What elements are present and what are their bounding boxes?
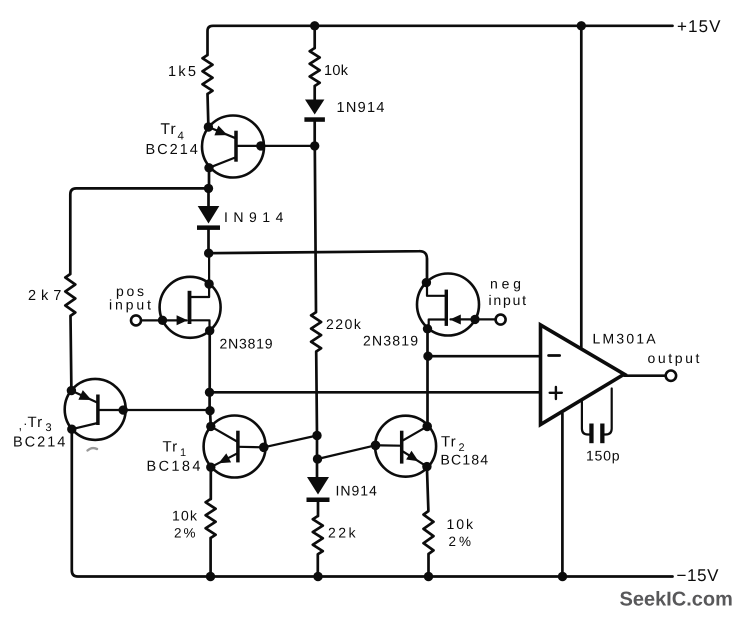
Tr4 emitter arrow (PNP) — [214, 126, 227, 136]
Tr4 base wire to center column — [238, 145, 315, 147]
wire left column to Tr3 base node — [208, 392, 211, 410]
output terminal — [666, 371, 676, 381]
Tr2 collector node — [422, 422, 432, 432]
Tr4 emitter node — [204, 122, 213, 131]
resistor R5 10k 2% — [206, 499, 216, 538]
comp wire right — [605, 389, 612, 435]
pos gate wire — [141, 319, 187, 321]
Tr2 emitter arrow (NPN) — [406, 451, 418, 462]
pos input terminal — [131, 315, 141, 325]
resistor R1 1k5 — [203, 55, 213, 94]
junction collector/2k7 branch — [204, 184, 213, 193]
wire to op-amp minus input — [428, 355, 541, 358]
rail node right — [424, 572, 433, 581]
diode D1 1N914 — [305, 100, 324, 115]
neg input terminal — [496, 315, 506, 325]
junction top rail / 10k — [310, 21, 319, 30]
wire D2 to drain node — [207, 230, 210, 254]
comp wire left — [582, 402, 589, 435]
Tr2 emitter line — [403, 451, 427, 466]
Tr3 collector node — [67, 425, 76, 434]
value 10k 2% left — [173, 510, 197, 520]
pos source edge node — [205, 326, 214, 335]
Tr3 emitter line — [71, 391, 96, 403]
wire 10k to rail — [427, 554, 430, 577]
neg drain edge node — [422, 278, 431, 287]
op-amp plus symbol — [550, 392, 562, 394]
label BC184 (Tr2) — [442, 455, 488, 465]
value D1 1N914 — [338, 102, 384, 112]
neg gate edge node — [470, 315, 479, 324]
wire 10k to rail — [209, 538, 212, 577]
wire Tr1 emitter to 10k — [209, 467, 212, 499]
neg JFET channel bar — [445, 290, 448, 326]
op-amp output wire — [625, 374, 666, 377]
pos drain edge node — [204, 279, 213, 288]
rail node left — [206, 572, 215, 581]
transistor Q Tr4 circle — [202, 116, 264, 178]
Tr2 base edge node — [371, 441, 381, 451]
pos gate edge node — [158, 316, 167, 325]
Tr1 base wire — [239, 436, 317, 448]
wire 22k to rail — [316, 554, 319, 576]
Tr4 collector line — [209, 158, 235, 168]
scan smudge artifact — [88, 448, 98, 450]
Tr3 base edge node — [119, 405, 128, 414]
Tr2 collector line — [403, 426, 427, 440]
wire D3 to 22k — [317, 502, 320, 516]
wire to op-amp plus input — [210, 391, 541, 394]
junction Tr3 base on left column — [205, 406, 214, 415]
Tr1 emitter node — [206, 463, 215, 472]
neg gate arrow — [450, 315, 461, 325]
wire 1k5 to Tr4 emitter — [206, 94, 210, 127]
label Tr4 — [161, 123, 176, 134]
value D2 IN914 — [225, 212, 283, 222]
wire 2k7 to Tr3 emitter — [69, 316, 73, 391]
Tr4 base bar — [234, 131, 238, 162]
transistor Q Tr2 circle — [375, 416, 436, 477]
Tr3 collector line — [72, 423, 98, 429]
resistor R3 2k7 — [65, 274, 75, 316]
Tr3 base bar — [96, 395, 100, 426]
wire center column to 220k — [315, 146, 316, 312]
Tr1 base bar — [236, 431, 240, 463]
op-amp V- wire — [561, 414, 564, 577]
pos gate arrow — [177, 315, 188, 325]
neg JFET source lead — [429, 320, 446, 329]
junction drains node — [204, 249, 213, 258]
pos JFET drain lead — [191, 253, 209, 297]
value 10k 2% right — [448, 519, 474, 529]
wire left column to Tr1 collector — [209, 411, 213, 427]
wire branch to 2k7 — [70, 188, 208, 274]
Tr3 emitter node — [67, 386, 76, 395]
node +15V label — [678, 20, 721, 32]
Tr2 emitter node — [422, 462, 431, 471]
value 2k7 — [29, 290, 61, 301]
neg gate wire — [451, 318, 496, 320]
label neg input — [491, 281, 520, 291]
Tr1 emitter arrow (NPN) — [219, 453, 232, 463]
wire rail to 10k — [313, 26, 316, 48]
node cross-couple lower — [313, 454, 322, 463]
wire 220k to bases node — [315, 352, 318, 477]
wire V+ supply to op-amp — [580, 26, 583, 347]
Tr1 emitter line — [211, 453, 238, 467]
neg source edge node — [423, 324, 432, 333]
Tr1 collector line — [211, 426, 237, 441]
label Tr2 — [441, 436, 455, 446]
Tr2 base wire — [318, 445, 401, 459]
Tr1 collector node — [206, 422, 215, 431]
neg JFET drain lead — [427, 258, 445, 296]
pos JFET source lead — [191, 320, 209, 330]
node -15V label — [677, 569, 718, 581]
wire Tr2 emitter to 10k — [427, 467, 429, 511]
Tr4 base edge node — [256, 141, 265, 150]
wire Tr3 collector to bottom rail — [72, 429, 673, 576]
resistor R4 220k — [311, 312, 321, 352]
wire to diode D2 — [207, 188, 210, 206]
resistor R7 10k 2% — [424, 511, 434, 554]
Tr3 emitter arrow (PNP) — [78, 390, 91, 400]
label Tr1 — [163, 441, 177, 451]
junction +15V column — [577, 21, 586, 30]
label 2N3819 (neg) — [364, 336, 418, 346]
junction minus input — [423, 352, 432, 361]
label BC214 (Tr3) — [14, 436, 65, 446]
Tr4 collector node — [204, 163, 213, 172]
value 150p — [587, 451, 619, 464]
wire 10k to diode D1 — [313, 86, 316, 100]
label 2N3819 (pos) — [220, 339, 272, 349]
op-amp minus symbol — [549, 354, 560, 357]
JFET U1 2N3819 circle (pos) — [160, 277, 221, 338]
diode D3 1N914 — [307, 477, 329, 495]
resistor R6 22k — [313, 516, 323, 554]
node base/D1/220k junction — [310, 141, 319, 150]
rail node center — [313, 572, 322, 581]
pos JFET channel bar — [188, 291, 192, 324]
resistor R2 10k — [310, 48, 320, 86]
node cross-couple upper — [312, 431, 321, 440]
Tr2 base bar — [400, 431, 404, 464]
label Tr3 — [20, 428, 21, 431]
wire neg column to Tr2 collector — [426, 356, 429, 426]
wire pos source column — [208, 331, 211, 393]
value 1k5 — [169, 66, 195, 77]
value 22k — [329, 527, 356, 537]
wire neg source column — [426, 329, 429, 356]
value 10k — [325, 65, 348, 76]
wire top supply rail — [208, 26, 673, 55]
wire D1 to Tr4 base node — [313, 122, 316, 146]
label LM301A — [594, 334, 656, 344]
transistor Q Tr3 circle — [65, 379, 126, 440]
capacitor C1 150p plates — [589, 424, 593, 444]
label pos input — [117, 289, 144, 299]
label output — [648, 354, 699, 366]
wire Tr4 collector down — [208, 168, 211, 189]
JFET U2 2N3819 circle (neg) — [417, 274, 479, 336]
Tr3 base wire — [99, 409, 209, 411]
transistor Q Tr1 circle — [204, 416, 266, 478]
watermark SeekIC.com — [620, 591, 732, 606]
Tr1 base edge node — [259, 443, 269, 453]
junction plus input — [205, 388, 214, 397]
value D3 IN914 — [337, 486, 377, 496]
value 220k — [327, 319, 361, 329]
diode D2 1N914 — [198, 206, 220, 224]
label BC184 (Tr1) — [148, 461, 200, 471]
label BC214 (Tr4) — [147, 144, 198, 154]
wire drains cross link — [209, 251, 427, 282]
rail node V- — [558, 572, 567, 581]
op-amp U3 LM301A — [541, 325, 625, 425]
Tr4 emitter line — [208, 127, 234, 138]
